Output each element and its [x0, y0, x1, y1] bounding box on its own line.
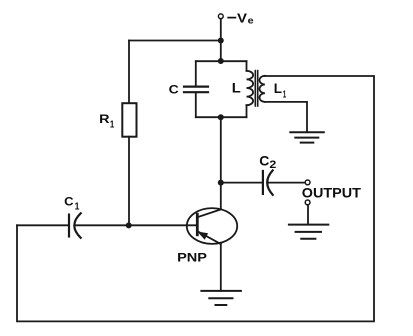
inductor L	[247, 71, 254, 105]
svg-text:V: V	[237, 10, 248, 25]
terminal OUTPUT top	[305, 180, 310, 185]
label C2	[259, 153, 276, 172]
inductor L1	[260, 76, 265, 102]
resistor R1	[122, 103, 136, 137]
svg-text:PNP: PNP	[177, 250, 207, 264]
label C	[169, 83, 179, 97]
wire supply to R1 branch	[129, 40, 221, 42]
wire emitter lead up	[220, 183, 222, 210]
ground transistor	[201, 291, 241, 305]
label C1	[64, 195, 80, 213]
capacitor C1	[69, 213, 81, 238]
wire tank right lower lead	[246, 105, 248, 117]
wire C1 to base	[75, 224, 198, 226]
wire tank bottom to output junction	[220, 117, 222, 182]
wire tank right upper lead	[246, 61, 248, 71]
wire tank bottom	[196, 116, 247, 118]
transformer core	[255, 71, 257, 106]
terminal OUTPUT bottom	[305, 200, 310, 205]
svg-text:1: 1	[283, 89, 287, 100]
svg-text:OUTPUT: OUTPUT	[302, 185, 362, 200]
wire R1 bottom lead	[128, 137, 130, 226]
node tank bottom	[218, 114, 224, 120]
wire L1 bottom to ground	[265, 102, 307, 132]
node output junction	[218, 180, 224, 186]
svg-text:L: L	[232, 80, 241, 95]
svg-text:2: 2	[269, 159, 276, 171]
label R1	[99, 114, 114, 130]
svg-text:C: C	[259, 153, 269, 169]
svg-text:1: 1	[75, 202, 80, 213]
label L1	[274, 81, 287, 100]
wire collector lead down	[220, 244, 222, 291]
node tank top	[218, 58, 224, 64]
wire left edge to C1	[17, 224, 68, 226]
capacitor C	[184, 87, 208, 93]
svg-text:C: C	[64, 195, 74, 209]
label PNP	[177, 250, 207, 264]
transistor Q1 PNP	[187, 208, 237, 244]
wire supply vertical	[220, 19, 222, 61]
svg-text:R: R	[99, 114, 110, 126]
label -Ve	[228, 10, 254, 26]
capacitor C2	[263, 170, 273, 194]
wire tank left lower lead	[195, 93, 197, 117]
svg-text:C: C	[169, 83, 179, 97]
ground L1	[290, 132, 324, 142]
terminal -Ve	[218, 14, 223, 19]
wire output terminal to ground	[307, 205, 309, 225]
svg-text:1: 1	[110, 118, 115, 130]
wire R1 top lead	[128, 41, 130, 104]
wire L1 top to right edge loop	[17, 76, 374, 321]
wire junction to C2	[221, 182, 262, 184]
label OUTPUT	[302, 185, 362, 200]
ground output	[289, 225, 328, 239]
wire tank top	[196, 60, 247, 62]
svg-text:L: L	[274, 81, 282, 96]
svg-text:e: e	[248, 16, 254, 27]
node supply junction	[218, 38, 224, 44]
wire tank left upper lead	[195, 61, 197, 86]
node base junction	[126, 222, 132, 228]
wire C2 to output terminal	[268, 182, 306, 184]
label L	[232, 80, 241, 95]
